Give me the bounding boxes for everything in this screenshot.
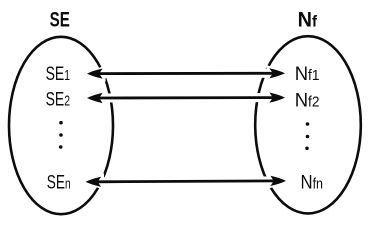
arrow SE1-Nf1 left head	[87, 69, 103, 79]
arrow SE1-Nf1 shaft	[98, 72, 274, 75]
dots left	[59, 121, 63, 125]
arrow SE2-Nf2 left head	[87, 93, 103, 103]
arrow SEn-Nfn left head	[86, 177, 102, 187]
arrow SEn-Nfn right head	[270, 176, 286, 186]
arrow SE2-Nf2 white casing	[85, 89, 288, 106]
arrow SE1-Nf1 white casing	[85, 65, 288, 82]
arrow SEn-Nfn white casing	[83, 173, 289, 191]
set SE ellipse (left)	[9, 37, 113, 214]
arrow SE1-Nf1 right head	[269, 68, 285, 78]
arrow SEn-Nfn shaft	[97, 179, 276, 183]
set Nf ellipse (right)	[255, 36, 361, 213]
arrow SE2-Nf2 right head	[269, 93, 285, 103]
arrow SE2-Nf2 shaft	[98, 96, 274, 99]
dots right	[306, 122, 310, 126]
svg-text:SE: SE	[50, 8, 70, 31]
